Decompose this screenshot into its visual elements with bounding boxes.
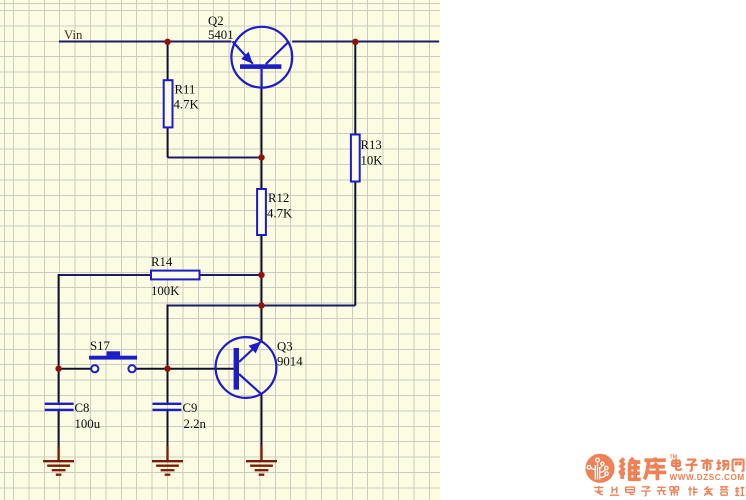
svg-text:2.2n: 2.2n (184, 417, 207, 431)
svg-text:C9: C9 (183, 401, 198, 415)
svg-text:Q2: Q2 (208, 14, 224, 28)
svg-text:S17: S17 (90, 339, 111, 353)
svg-text:R11: R11 (175, 83, 196, 97)
svg-text:5401: 5401 (208, 28, 234, 42)
svg-text:4.7K: 4.7K (267, 207, 293, 221)
svg-text:100K: 100K (151, 284, 180, 298)
svg-text:C8: C8 (75, 401, 90, 415)
svg-text:R13: R13 (361, 138, 382, 152)
svg-text:100u: 100u (75, 417, 101, 431)
svg-text:Vin: Vin (64, 28, 83, 42)
svg-text:R12: R12 (268, 191, 289, 205)
svg-text:10K: 10K (361, 154, 384, 168)
svg-text:4.7K: 4.7K (174, 98, 200, 112)
svg-text:Q3: Q3 (277, 340, 293, 354)
svg-text:WWW.DZSC.COM: WWW.DZSC.COM (670, 473, 745, 482)
svg-text:R14: R14 (151, 255, 173, 269)
svg-text:9014: 9014 (277, 355, 303, 369)
